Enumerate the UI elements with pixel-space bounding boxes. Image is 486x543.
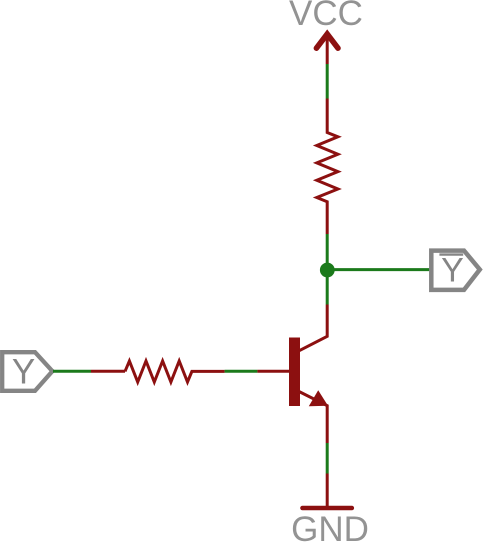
transistor Q1 emitter: [298, 391, 327, 443]
svg-text:GND: GND: [291, 510, 369, 543]
wire output net (node down): [326, 277, 329, 305]
svg-text:VCC: VCC: [289, 0, 363, 33]
transistor Q1 base lead: [257, 370, 289, 373]
wire VCC net (vertical): [326, 64, 329, 99]
ground symbol bar: [303, 506, 352, 511]
svg-text:Y: Y: [441, 252, 464, 290]
resistor R2 lead left: [91, 370, 125, 373]
net label tag Y-bar (output): [431, 251, 480, 290]
transistor Q1 collector: [298, 305, 327, 352]
wire output net (node to label): [327, 268, 430, 271]
net label tag Y (input): [2, 352, 52, 391]
transistor Q1 emitter arrowhead: [309, 390, 328, 406]
ground pin lead: [326, 474, 329, 507]
svg-text:Y: Y: [12, 352, 35, 391]
resistor R2 (base resistor): [125, 361, 225, 382]
transistor Q1 base bar: [289, 338, 300, 407]
power symbol VCC arrow: [316, 33, 338, 64]
junction node (output net): [320, 263, 335, 278]
resistor R1 (collector pull-up): [317, 99, 338, 235]
wire input net (tag to resistor): [53, 370, 91, 373]
wire base net: [225, 370, 258, 373]
wire emitter net: [326, 443, 329, 474]
overline of Y: [439, 253, 463, 255]
wire collector net (resistor to node): [326, 234, 329, 263]
